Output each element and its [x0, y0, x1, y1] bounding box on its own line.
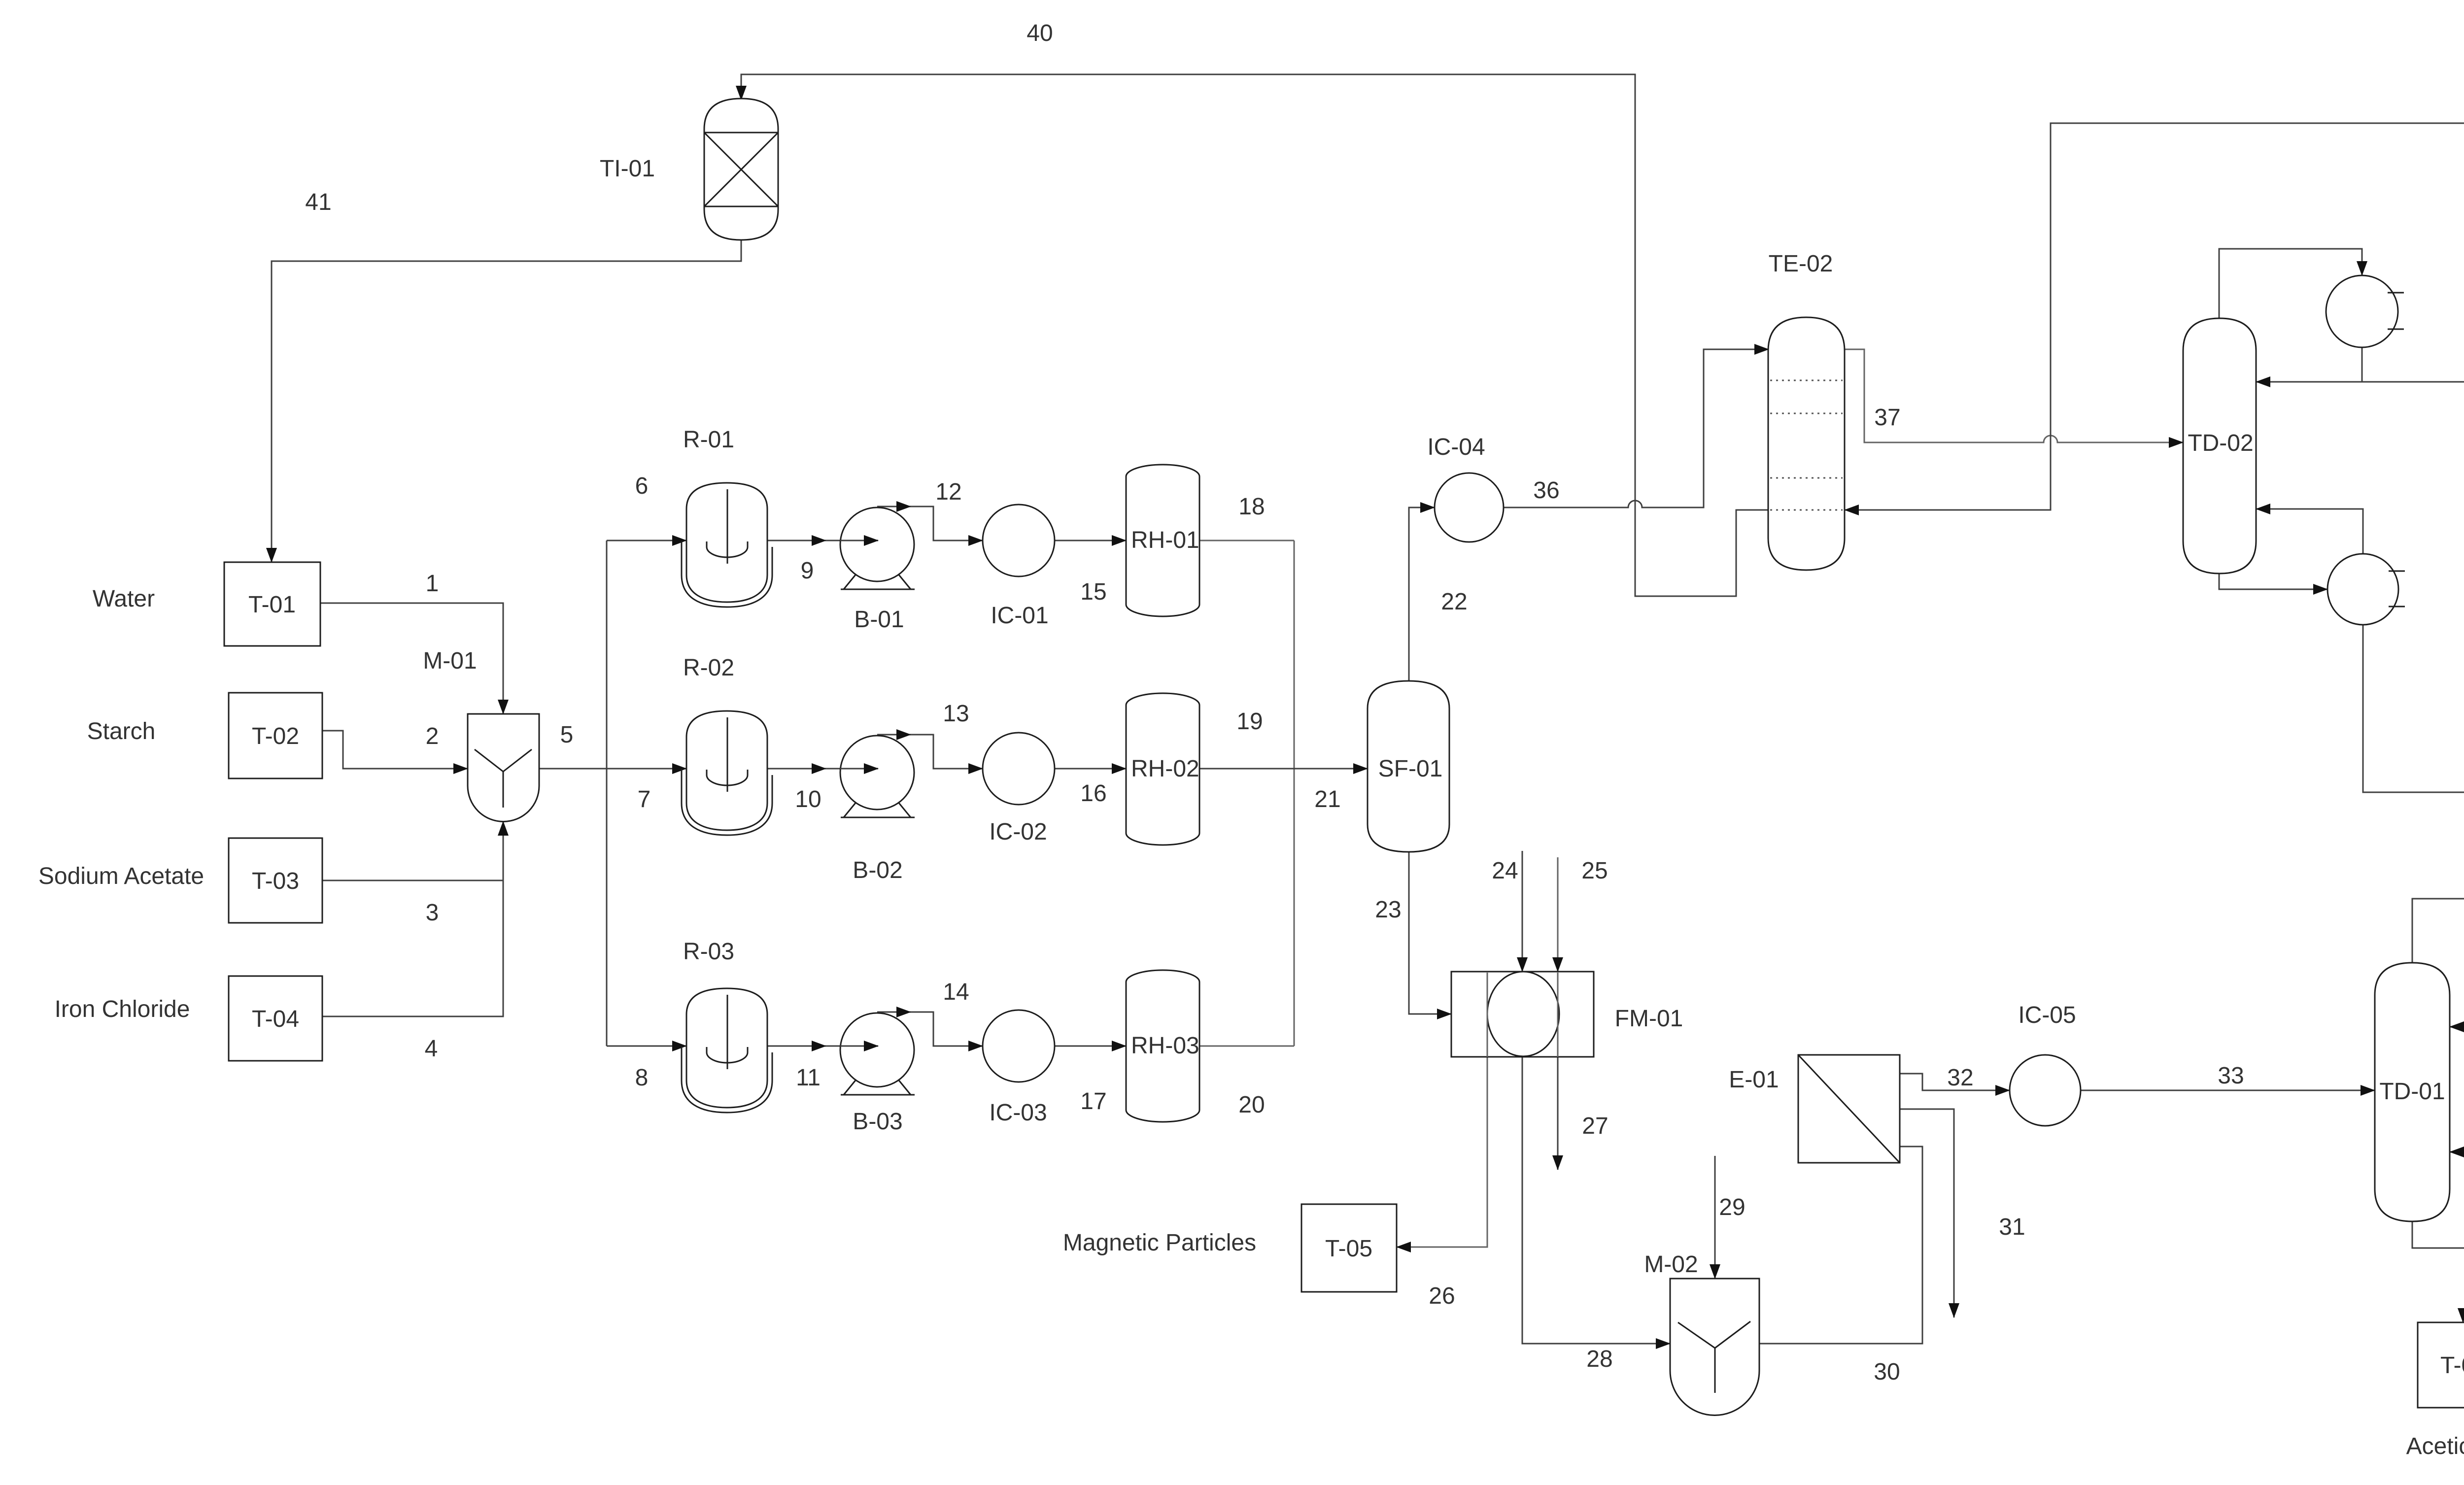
svg-text:IC-02: IC-02	[989, 819, 1047, 845]
svg-text:18: 18	[1238, 494, 1265, 520]
svg-text:29: 29	[1719, 1194, 1745, 1220]
svg-text:40: 40	[1027, 20, 1053, 46]
svg-text:16: 16	[1080, 780, 1106, 807]
svg-text:21: 21	[1314, 786, 1340, 812]
svg-text:R-01: R-01	[683, 427, 734, 453]
svg-text:26: 26	[1429, 1283, 1455, 1309]
svg-text:5: 5	[560, 722, 574, 748]
svg-text:19: 19	[1236, 709, 1263, 735]
svg-text:T-01: T-01	[248, 592, 296, 618]
svg-text:R-03: R-03	[683, 939, 734, 965]
svg-text:R-02: R-02	[683, 655, 734, 681]
svg-text:T-05: T-05	[1325, 1236, 1372, 1262]
svg-text:B-03: B-03	[853, 1109, 902, 1135]
svg-text:Starch: Starch	[87, 718, 156, 744]
svg-text:27: 27	[1582, 1113, 1608, 1139]
svg-text:M-02: M-02	[1644, 1251, 1698, 1278]
svg-text:IC-05: IC-05	[2018, 1002, 2076, 1028]
svg-text:10: 10	[795, 786, 821, 812]
svg-text:7: 7	[638, 786, 651, 812]
svg-text:M-01: M-01	[423, 648, 477, 674]
svg-text:20: 20	[1238, 1092, 1265, 1118]
svg-text:TD-02: TD-02	[2188, 430, 2253, 456]
svg-text:41: 41	[305, 189, 331, 215]
svg-text:22: 22	[1441, 589, 1467, 615]
svg-text:B-02: B-02	[853, 857, 902, 883]
svg-text:Iron Chloride: Iron Chloride	[55, 996, 190, 1022]
svg-text:RH-01: RH-01	[1131, 527, 1199, 553]
svg-text:30: 30	[1874, 1359, 1900, 1385]
svg-text:37: 37	[1874, 405, 1900, 431]
svg-text:23: 23	[1375, 897, 1401, 923]
svg-text:Magnetic Particles: Magnetic Particles	[1063, 1230, 1256, 1256]
svg-text:B-01: B-01	[854, 607, 904, 633]
svg-text:TD-01: TD-01	[2379, 1079, 2445, 1105]
svg-text:Sodium Acetate: Sodium Acetate	[38, 863, 204, 889]
svg-text:15: 15	[1080, 579, 1106, 605]
svg-text:31: 31	[1999, 1214, 2025, 1240]
svg-text:14: 14	[943, 979, 969, 1005]
svg-text:Water: Water	[93, 586, 155, 612]
svg-text:11: 11	[796, 1065, 821, 1091]
svg-text:24: 24	[1492, 858, 1518, 884]
svg-text:32: 32	[1947, 1065, 1973, 1091]
svg-text:4: 4	[425, 1036, 438, 1062]
svg-text:3: 3	[426, 900, 439, 926]
svg-text:Acetic Acid: Acetic Acid	[2406, 1433, 2464, 1459]
svg-text:TE-02: TE-02	[1769, 251, 1833, 277]
svg-text:1: 1	[426, 571, 439, 597]
svg-text:IC-04: IC-04	[1427, 434, 1485, 460]
svg-text:T-03: T-03	[252, 868, 299, 894]
svg-text:36: 36	[1533, 477, 1559, 504]
svg-text:E-01: E-01	[1729, 1067, 1779, 1093]
svg-text:6: 6	[635, 473, 649, 499]
svg-text:RH-03: RH-03	[1131, 1033, 1199, 1059]
svg-text:25: 25	[1581, 858, 1608, 884]
svg-text:IC-03: IC-03	[989, 1100, 1047, 1126]
svg-text:9: 9	[801, 558, 814, 584]
svg-text:28: 28	[1586, 1346, 1612, 1372]
svg-text:TI-01: TI-01	[600, 156, 655, 182]
svg-text:T-02: T-02	[252, 723, 299, 749]
svg-text:12: 12	[935, 479, 961, 505]
svg-text:SF-01: SF-01	[1378, 756, 1443, 782]
svg-text:2: 2	[426, 723, 439, 749]
svg-text:T-04: T-04	[252, 1006, 299, 1032]
svg-text:33: 33	[2218, 1063, 2244, 1089]
svg-text:T-06: T-06	[2440, 1352, 2464, 1379]
svg-text:13: 13	[943, 701, 969, 727]
svg-text:17: 17	[1080, 1088, 1106, 1114]
svg-text:IC-01: IC-01	[991, 603, 1048, 629]
svg-text:FM-01: FM-01	[1615, 1006, 1683, 1032]
svg-text:RH-02: RH-02	[1131, 756, 1199, 782]
svg-text:8: 8	[635, 1065, 649, 1091]
